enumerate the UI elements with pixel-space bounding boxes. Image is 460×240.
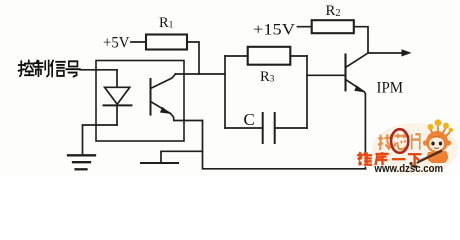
- resistor R3: [248, 47, 291, 65]
- svg-text:IPM: IPM: [377, 79, 404, 96]
- output arrow line: [368, 52, 403, 54]
- 控: [19, 61, 34, 77]
- transistor Q1: [346, 53, 369, 169]
- RC network left vertical: [224, 56, 226, 128]
- ground (left): [68, 155, 95, 169]
- wire: emitter down and bottom rail: [203, 121, 366, 169]
- wire: R1 to collector node: [187, 42, 199, 74]
- svg-text:C: C: [244, 110, 255, 129]
- wire: LED cathode to ground: [83, 125, 118, 154]
- wire R3 to right vertical: [290, 55, 307, 57]
- 号: [66, 61, 80, 76]
- red oval around 芯: [391, 129, 408, 153]
- wire: capacitor to right vertical: [275, 127, 307, 129]
- wire to ground (mid): [161, 151, 203, 163]
- LED D1 (vertical, anode top): [104, 70, 132, 125]
- optocoupler box: [96, 61, 184, 142]
- svg-text:www.dzsc.com: www.dzsc.com: [374, 163, 443, 175]
- wire: control signal to LED anode: [80, 69, 117, 71]
- soft glow: [372, 123, 458, 175]
- svg-text:+15V: +15V: [253, 20, 295, 39]
- arrowhead on phototransistor emitter: [160, 107, 171, 114]
- wire: left vertical to capacitor: [225, 127, 263, 129]
- output arrowhead: [402, 49, 412, 56]
- RC network right vertical: [306, 56, 308, 128]
- wire: collector node to RC network: [176, 73, 226, 75]
- wire to R3: [225, 55, 248, 57]
- wire: base of Q1: [307, 74, 346, 76]
- 信: [51, 61, 65, 77]
- watermark group: [358, 119, 458, 175]
- wire: +5V to R1: [131, 41, 146, 43]
- svg-text:+5V: +5V: [103, 33, 130, 52]
- orange text 找芯片 with white casing: [378, 134, 420, 150]
- phototransistor (in optocoupler): [151, 74, 203, 121]
- 制: [34, 61, 48, 77]
- node label 控制信号 (control signal): [19, 61, 80, 77]
- capacitor C plates: [262, 113, 264, 143]
- wire: R2 to collector of Q1: [354, 27, 368, 53]
- wire: +15V to R2: [298, 26, 312, 28]
- mascot: [411, 119, 453, 166]
- resistor R2: [312, 20, 354, 33]
- arrowhead on Q1 emitter: [354, 85, 365, 92]
- resistor R1: [146, 35, 187, 50]
- ground (mid) bar: [141, 162, 178, 164]
